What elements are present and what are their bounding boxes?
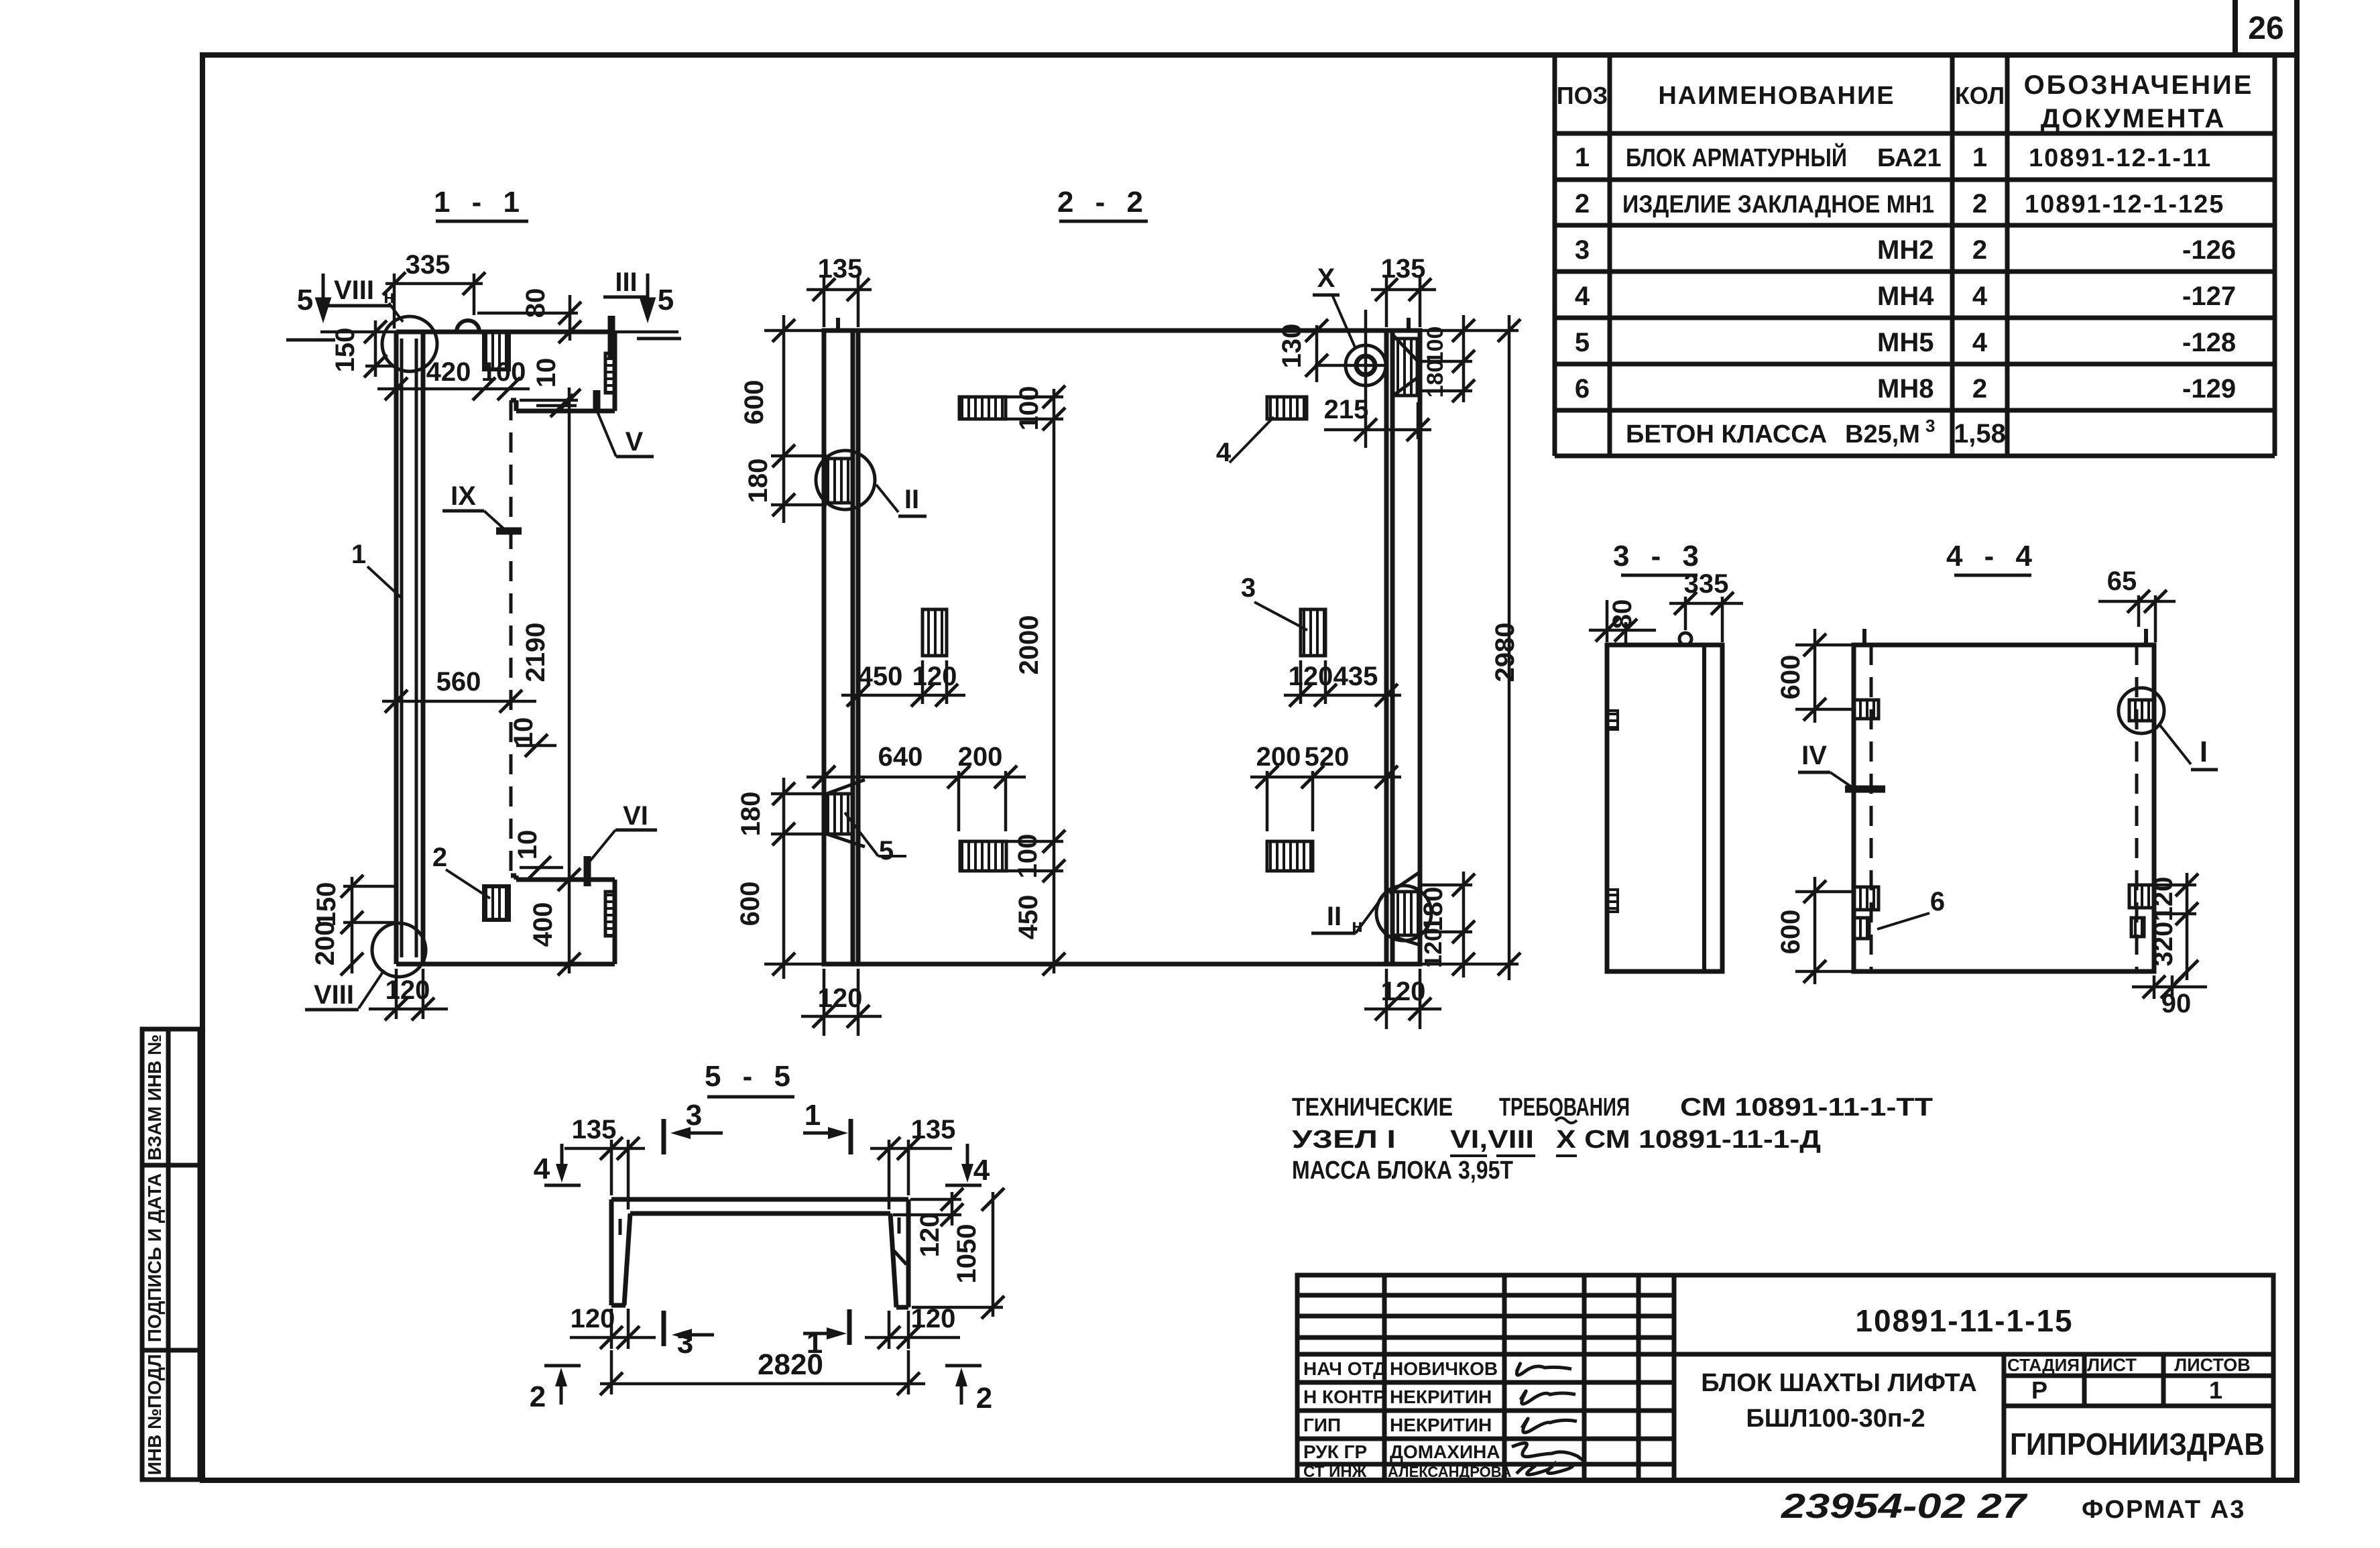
svg-text:РУК ГР: РУК ГР (1303, 1441, 1367, 1462)
svg-text:КОЛ: КОЛ (1955, 82, 2005, 109)
svg-text:10: 10 (532, 358, 561, 388)
svg-text:-129: -129 (2182, 374, 2236, 404)
view 5-5 dim 135 right (870, 1140, 952, 1209)
svg-text:5: 5 (297, 284, 313, 316)
svg-text:1: 1 (1575, 143, 1590, 172)
svg-text:80: 80 (1608, 599, 1637, 630)
svg-text:6: 6 (1930, 887, 1945, 916)
parts table header text (1557, 70, 2254, 133)
view 2-2 plate node II (827, 459, 853, 503)
svg-text:2: 2 (976, 1382, 992, 1415)
svg-text:180: 180 (1419, 887, 1448, 932)
view 3-3 dim 80 (1589, 600, 1656, 645)
svg-text:3: 3 (677, 1327, 693, 1360)
svg-text:5: 5 (879, 836, 894, 866)
svg-text:НЕКРИТИН: НЕКРИТИН (1390, 1415, 1492, 1435)
svg-text:600: 600 (1776, 910, 1805, 955)
svg-text:600: 600 (1776, 655, 1805, 700)
view 1-1 dim 10 mid (516, 744, 556, 748)
svg-text:120: 120 (1419, 928, 1447, 968)
svg-text:ДОМАХИНА: ДОМАХИНА (1390, 1441, 1500, 1462)
svg-text:600: 600 (735, 882, 765, 927)
view 2-2 dim 2000 with 100s (1006, 389, 1063, 973)
svg-text:МН8: МН8 (1877, 374, 1933, 404)
view 2-2 plate bottom center-left (960, 841, 1006, 871)
svg-text:90: 90 (2161, 989, 2192, 1018)
view 5-5 section mark 1 bottom (847, 1309, 852, 1345)
svg-text:420: 420 (426, 357, 471, 387)
svg-text:МАССА БЛОКА 3,95Т: МАССА БЛОКА 3,95Т (1292, 1156, 1513, 1185)
view 1-1 embedded plate 2 bottom (484, 886, 509, 920)
svg-text:100: 100 (481, 357, 526, 387)
svg-text:335: 335 (1684, 569, 1729, 599)
svg-text:-126: -126 (2182, 235, 2236, 265)
svg-text:-127: -127 (2182, 282, 2236, 311)
svg-text:10891-12-1-125: 10891-12-1-125 (2025, 190, 2224, 219)
view 1-1 dim 420 100 (377, 388, 530, 391)
view 5-5 section mark 3 bottom (662, 1311, 666, 1346)
svg-text:150: 150 (312, 882, 341, 927)
view 2-2 dim 640 200 (807, 771, 1026, 831)
view 5-5 leg marks (620, 1217, 906, 1264)
view 5-5 dim 135 left (564, 1140, 645, 1209)
view 2-2 plate MH top center-left (959, 397, 1006, 419)
title block names (1388, 1358, 1511, 1480)
svg-text:5: 5 (658, 284, 674, 316)
svg-text:2: 2 (530, 1380, 546, 1413)
svg-text:БЛОК ШАХТЫ ЛИФТА: БЛОК ШАХТЫ ЛИФТА (1701, 1369, 1977, 1397)
view 4-4 dim 65 (2098, 595, 2176, 642)
svg-text:СТ ИНЖ: СТ ИНЖ (1303, 1463, 1367, 1481)
svg-text:3: 3 (1575, 235, 1590, 265)
view 3-3 dim 335 (1669, 597, 1743, 642)
view 4-4 dim 120 right (2155, 873, 2196, 924)
svg-text:335: 335 (406, 250, 451, 280)
svg-text:УЗЕЛ I: УЗЕЛ I (1292, 1126, 1396, 1154)
view 4-4 left plates (1854, 700, 1879, 719)
svg-text:4: 4 (973, 1154, 990, 1187)
view 2-2 dim 180 120 right bottom (1421, 872, 1472, 977)
svg-text:560: 560 (436, 667, 481, 697)
svg-text:ИНВ №ПОДЛ: ИНВ №ПОДЛ (144, 1354, 165, 1476)
view 1-1 outline (396, 332, 615, 964)
view 2-2 dim 135 right (1371, 275, 1436, 327)
view 2-2 plate 3 right (1301, 609, 1325, 656)
view 3-3 loop circle (1679, 633, 1691, 645)
svg-text:АЛЕКСАНДРОВА: АЛЕКСАНДРОВА (1388, 1464, 1511, 1480)
svg-text:130: 130 (1277, 324, 1307, 369)
svg-text:3: 3 (1925, 416, 1935, 436)
view 1-1 node circle top (382, 316, 437, 371)
svg-text:120: 120 (915, 1213, 945, 1258)
svg-text:МН4: МН4 (1877, 282, 1934, 311)
svg-text:В25,М: В25,М (1845, 420, 1920, 449)
svg-text:ЛИСТ: ЛИСТ (2087, 1355, 2137, 1375)
svg-text:120: 120 (818, 984, 863, 1013)
view 1-1 dim 10 bottom (520, 866, 563, 870)
view 2-2 dim 2980 (1421, 315, 1519, 980)
view 1-1 labels (297, 267, 674, 1010)
svg-text:4 - 4: 4 - 4 (1946, 540, 2039, 573)
svg-text:НОВИЧКОВ: НОВИЧКОВ (1390, 1358, 1498, 1379)
view 4-4 dim 600 top left (1795, 629, 1854, 723)
svg-text:640: 640 (878, 742, 923, 772)
svg-text:2: 2 (1575, 189, 1590, 219)
svg-text:V: V (626, 427, 644, 457)
svg-text:ГИПРОНИИЗДРАВ: ГИПРОНИИЗДРАВ (2010, 1427, 2265, 1462)
view 1-1 leaders (359, 303, 616, 1008)
svg-text:5 - 5: 5 - 5 (705, 1060, 797, 1093)
svg-text:3: 3 (1241, 573, 1256, 603)
svg-text:4: 4 (1972, 282, 1988, 311)
svg-text:10: 10 (513, 830, 542, 860)
svg-text:100: 100 (1014, 386, 1044, 431)
svg-text:450: 450 (1014, 895, 1043, 940)
view 2-2 dim 120 435 mid-right (1284, 660, 1401, 704)
svg-text:-128: -128 (2182, 328, 2236, 357)
svg-text:600: 600 (739, 380, 769, 425)
svg-text:3: 3 (686, 1099, 702, 1132)
view 2-2 labels (879, 263, 1363, 936)
svg-text:2: 2 (1972, 189, 1987, 219)
svg-text:4: 4 (1216, 438, 1232, 467)
svg-text:БЛОК АРМАТУРНЫЙ: БЛОК АРМАТУРНЫЙ (1626, 142, 1847, 172)
view 1-1 dim 80 (477, 295, 578, 341)
svg-text:2: 2 (1972, 374, 1987, 404)
svg-text:10: 10 (509, 717, 538, 748)
view 4-4 right plates with node I (2129, 700, 2153, 721)
svg-text:БА21: БА21 (1877, 144, 1942, 172)
svg-text:4: 4 (1575, 282, 1590, 311)
title block grid (1297, 1275, 2273, 1480)
svg-text:ТЕХНИЧЕСКИЕ: ТЕХНИЧЕСКИЕ (1292, 1093, 1453, 1122)
svg-text:2190: 2190 (521, 623, 550, 682)
svg-text:2820: 2820 (758, 1348, 823, 1381)
technical requirements note (1292, 1093, 1933, 1185)
svg-text:200: 200 (958, 742, 1003, 772)
view 4-4 dim 90 (2132, 975, 2207, 999)
view 1-1 reinforcement lines (402, 339, 416, 957)
svg-text:I: I (2200, 735, 2208, 768)
view 5-5 section mark 1 top (849, 1119, 853, 1154)
svg-text:1: 1 (805, 1099, 821, 1132)
svg-text:1: 1 (1972, 143, 1987, 172)
view 2-2 dim 130 (1315, 325, 1319, 382)
svg-text:120: 120 (912, 662, 957, 691)
svg-text:180: 180 (1423, 360, 1448, 398)
svg-text:180: 180 (736, 792, 766, 837)
svg-text:НАИМЕНОВАНИЕ: НАИМЕНОВАНИЕ (1658, 82, 1895, 110)
view 2-2 dim 120 bottom left (801, 969, 882, 1036)
svg-text:VI: VI (623, 801, 648, 831)
svg-text:ВЗАМ ИНВ №: ВЗАМ ИНВ № (144, 1034, 165, 1160)
svg-text:200: 200 (310, 921, 340, 966)
svg-text:1,58: 1,58 (1954, 419, 2006, 449)
view 2-2 plate 3 area left (923, 609, 947, 656)
view 1-1 node circle bottom (372, 923, 426, 977)
svg-text:65: 65 (2107, 567, 2137, 596)
svg-text:120: 120 (571, 1304, 615, 1333)
svg-text:III: III (615, 267, 637, 297)
view 4-4 outline (1854, 645, 2154, 971)
view 2-2 node X (1346, 345, 1386, 385)
svg-text:ПОДПИСЬ И ДАТА: ПОДПИСЬ И ДАТА (144, 1173, 165, 1342)
view 5-5 outline (611, 1199, 908, 1307)
svg-text:5: 5 (1575, 328, 1590, 357)
view 2-2 dim 200 520 (1250, 771, 1401, 831)
svg-text:3 - 3: 3 - 3 (1613, 540, 1706, 573)
title block stage cells (2007, 1355, 2251, 1375)
svg-text:X: X (1317, 263, 1335, 293)
svg-text:ФОРМАТ А3: ФОРМАТ А3 (2082, 1496, 2245, 1524)
svg-text:НЕКРИТИН: НЕКРИТИН (1390, 1386, 1492, 1407)
svg-text:135: 135 (1381, 254, 1426, 284)
view 2-2 dim 120 bottom right (1364, 969, 1441, 1029)
view 1-1 section marks (496, 316, 611, 886)
view 5-5 section mark 3 top (662, 1119, 666, 1154)
svg-text:120: 120 (1381, 977, 1426, 1006)
view 2-2 plate top-right corner (1393, 339, 1417, 396)
svg-text:26: 26 (2248, 11, 2283, 46)
svg-text:БЕТОН КЛАССА: БЕТОН КЛАССА (1626, 420, 1827, 449)
view 4-4 dim 600 bottom left (1795, 877, 1854, 984)
svg-text:200: 200 (1256, 742, 1301, 772)
svg-text:120: 120 (385, 975, 430, 1005)
svg-text:VI,VIII: VI,VIII (1450, 1126, 1534, 1154)
view 2-2 outline (824, 331, 1420, 964)
view 5-5 dim 120 right side (893, 1192, 961, 1226)
svg-text:100: 100 (1013, 834, 1043, 879)
svg-text:400: 400 (528, 902, 558, 947)
svg-text:СМ 10891-11-1-ТТ: СМ 10891-11-1-ТТ (1680, 1093, 1933, 1122)
view 2-2 plate 4 top right (1267, 397, 1307, 419)
left margin stamp boxes (142, 1029, 200, 1480)
view 2-2 plate 5 left wall (827, 794, 853, 834)
view 1-1 lifting loop (457, 320, 479, 332)
svg-text:Р: Р (2031, 1376, 2047, 1404)
svg-text:МН5: МН5 (1877, 328, 1933, 357)
svg-text:180: 180 (743, 459, 773, 503)
view 2-2 plate node IIн (1392, 892, 1419, 935)
svg-text:IV: IV (1801, 741, 1827, 770)
svg-text:ДОКУМЕНТА: ДОКУМЕНТА (2041, 104, 2226, 133)
svg-text:10891-12-1-11: 10891-12-1-11 (2029, 144, 2212, 172)
view 2-2 left dim chain bottom (764, 778, 827, 979)
svg-text:23954-02 27: 23954-02 27 (1781, 1487, 2028, 1526)
view 1-1 embedded plate top (484, 332, 509, 369)
svg-text:VIII: VIII (314, 980, 354, 1010)
svg-text:ОБОЗНАЧЕНИЕ: ОБОЗНАЧЕНИЕ (2024, 70, 2254, 100)
view 1-1 dim 335 (385, 274, 483, 329)
view 2-2 dim 215 (1324, 402, 1431, 439)
view 2-2 left dim chain top (764, 315, 827, 523)
svg-text:1 - 1: 1 - 1 (434, 186, 526, 219)
view 2-2 dim 100 180 right top (1421, 315, 1472, 402)
svg-text:2: 2 (432, 843, 447, 872)
parts table grid (1555, 55, 2275, 456)
svg-text:4: 4 (1972, 328, 1988, 357)
view 4-4 dim 320 right (2186, 924, 2189, 980)
left stamp vertical labels (144, 1034, 165, 1475)
svg-text:1: 1 (2209, 1376, 2222, 1404)
svg-text:II: II (904, 485, 919, 514)
view 2-2 dim 450 120 mid-left (841, 660, 965, 704)
view 4-4 loop ticks (1862, 629, 1866, 645)
svg-text:IX: IX (451, 481, 476, 511)
svg-text:6: 6 (1575, 374, 1590, 404)
view 1-1 dim 2190 and 400 (520, 388, 578, 973)
svg-text:435: 435 (1333, 662, 1378, 691)
view 1-1 dim 150 top (320, 320, 396, 377)
svg-text:1050: 1050 (952, 1224, 981, 1284)
svg-text:СТАДИЯ: СТАДИЯ (2007, 1355, 2080, 1375)
view 2-2 dim 135 left (807, 275, 872, 327)
view 1-1 end bracket top (605, 353, 615, 393)
svg-text:НАЧ ОТД: НАЧ ОТД (1303, 1358, 1386, 1379)
svg-text:ИЗДЕЛИЕ ЗАКЛАДНОЕ МН1: ИЗДЕЛИЕ ЗАКЛАДНОЕ МН1 (1622, 190, 1934, 218)
view 5-5 dim 1050 (912, 1192, 1003, 1317)
view 1-1 section arrows 5 (317, 274, 654, 318)
view 2-2 loop ticks (838, 318, 1409, 331)
svg-text:135: 135 (572, 1115, 617, 1144)
svg-text:135: 135 (911, 1115, 956, 1144)
svg-text:X СМ 10891-11-1-Д: X СМ 10891-11-1-Д (1556, 1126, 1821, 1154)
svg-text:Н КОНТР: Н КОНТР (1303, 1386, 1386, 1407)
svg-text:1: 1 (351, 540, 366, 569)
svg-text:120: 120 (1289, 662, 1333, 691)
svg-text:320: 320 (2149, 922, 2178, 967)
signatures (1512, 1364, 1583, 1475)
parts table rows text (1575, 142, 2236, 449)
view 3-3 edge plates (1608, 711, 1618, 729)
view 1-1 dim 560 (382, 700, 536, 703)
svg-text:МН2: МН2 (1877, 235, 1933, 265)
svg-text:БШЛ100-30п-2: БШЛ100-30п-2 (1746, 1405, 1925, 1433)
view 1-1 dim 120 bottom (369, 969, 448, 1019)
svg-text:ЛИСТОВ: ЛИСТОВ (2174, 1355, 2251, 1375)
view 5-5 dim 120 bottom left (570, 1309, 656, 1349)
view 1-1 end bracket bottom (605, 892, 615, 936)
view 3-3 outline (1607, 645, 1722, 971)
view 1-1 dim 10 top (536, 404, 577, 408)
svg-text:520: 520 (1305, 742, 1350, 772)
svg-text:80: 80 (521, 288, 550, 318)
view 1-1 hidden dashed line (510, 400, 513, 876)
svg-text:II: II (1327, 902, 1342, 931)
svg-text:2000: 2000 (1014, 615, 1044, 675)
svg-text:2980: 2980 (1490, 623, 1520, 682)
svg-text:150: 150 (331, 328, 360, 373)
svg-text:215: 215 (1324, 395, 1369, 424)
svg-text:ГИП: ГИП (1303, 1415, 1341, 1435)
svg-text:ПОЗ: ПОЗ (1557, 82, 1608, 109)
svg-text:135: 135 (818, 254, 863, 284)
svg-text:10891-11-1-15: 10891-11-1-15 (1855, 1303, 2073, 1338)
svg-text:2: 2 (1972, 235, 1987, 265)
svg-text:2 - 2: 2 - 2 (1057, 186, 1150, 219)
svg-text:450: 450 (858, 662, 903, 691)
view 2-2 plate bottom center-right (1267, 841, 1313, 871)
svg-text:4: 4 (534, 1152, 550, 1185)
title block roles (1303, 1358, 1386, 1481)
svg-text:VIII: VIII (334, 276, 374, 305)
view 5-5 dim 2820 (600, 1350, 925, 1394)
view 1-1 dims 150 200 bottom (343, 877, 396, 973)
svg-text:120: 120 (2149, 877, 2178, 922)
view 4-4 hidden lines (1870, 645, 1873, 971)
view 5-5 dim 120 bottom right (865, 1311, 960, 1349)
